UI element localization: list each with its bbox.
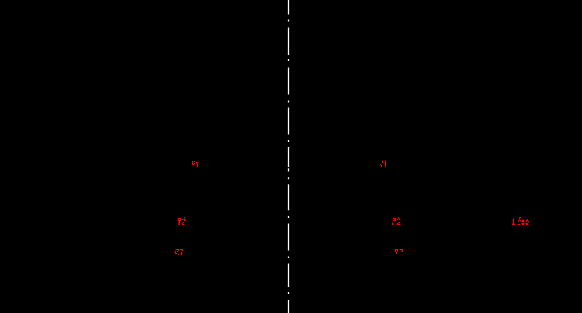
resistor value label 1 Res (512, 217, 529, 225)
transistor Q2 reference label (left) (178, 217, 186, 225)
wire (288, 216, 290, 218)
wire (288, 168, 290, 171)
wire (288, 257, 290, 259)
wire (288, 224, 290, 251)
transistor Q2 reference label (right) (392, 217, 401, 225)
wire (288, 101, 290, 103)
wire (288, 147, 290, 167)
wire (288, 28, 290, 56)
transistor value label 27 (left) (175, 249, 183, 255)
wire (288, 184, 290, 210)
wire (288, 300, 290, 313)
wire (288, 292, 290, 294)
sheet centerline (dash-dot axis of symmetry) (288, 0, 290, 313)
wire (288, 59, 290, 61)
wire (288, 177, 290, 179)
wire (288, 140, 290, 142)
wire (288, 68, 290, 95)
wire (288, 20, 290, 22)
transistor value label Q7 (right) (395, 249, 403, 254)
wire (288, 264, 290, 288)
wire (288, 0, 290, 15)
source V1 reference label (right) (380, 160, 386, 167)
source V1 reference label (left) (192, 161, 198, 167)
wire (288, 108, 290, 135)
